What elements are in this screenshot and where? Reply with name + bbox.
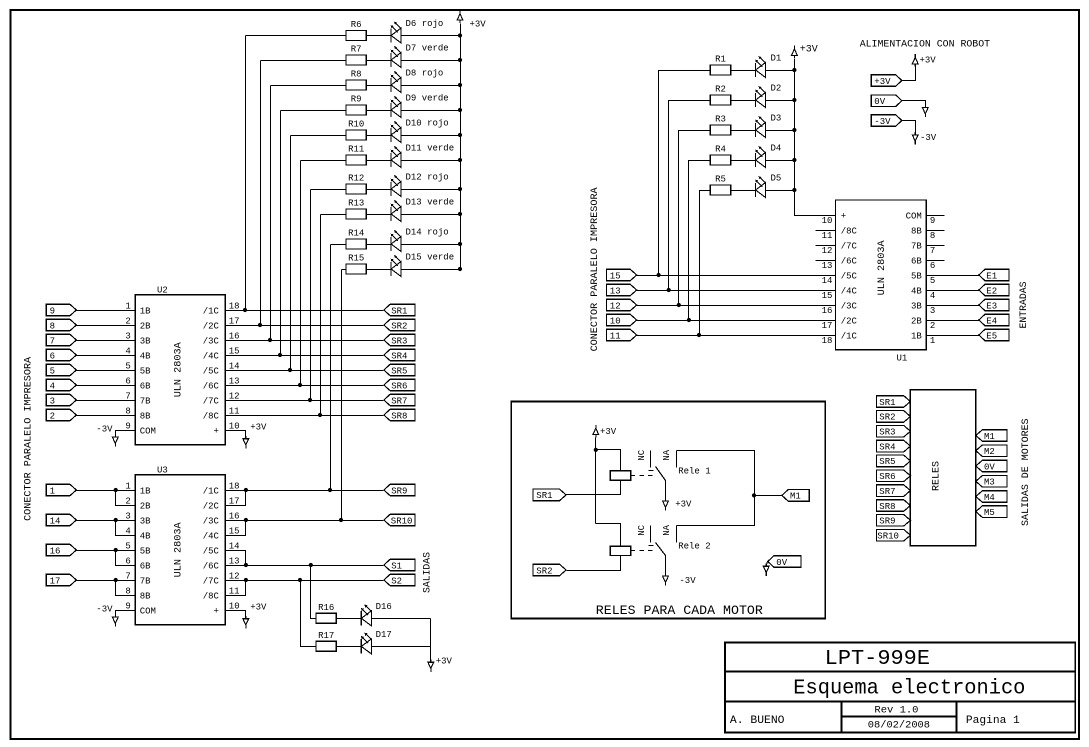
- svg-text:2B: 2B: [911, 316, 922, 326]
- svg-text:CONECTOR PARALELO IMPRESORA: CONECTOR PARALELO IMPRESORA: [24, 357, 35, 521]
- wire coil K1 to SR1: [567, 481, 621, 495]
- svg-text:-3V: -3V: [874, 117, 891, 127]
- junction U3 output pair 2: [244, 518, 248, 522]
- wire U3 pair link 1: [116, 491, 136, 506]
- resistor R10: [346, 130, 366, 140]
- LED D9: [390, 103, 392, 117]
- flag SR4 (reles block): [877, 440, 911, 452]
- relay K1 blade: [656, 467, 666, 481]
- wire D1 to rail: [766, 70, 795, 72]
- junction S2/R17: [298, 578, 302, 582]
- wire net SR2 vertical bus: [260, 61, 262, 326]
- wire K1 common to +3V: [665, 481, 667, 500]
- svg-text:08/02/2008: 08/02/2008: [868, 719, 930, 731]
- LED D8: [390, 78, 392, 92]
- svg-text:7B: 7B: [140, 576, 151, 586]
- svg-text:SR1: SR1: [391, 306, 407, 316]
- svg-text:D16: D16: [376, 602, 392, 612]
- wire U2 COM to -3V: [116, 431, 136, 437]
- junction S1/R16: [309, 563, 313, 567]
- wire row R9: [281, 110, 347, 112]
- wire R4 to D4: [731, 160, 756, 162]
- svg-text:SALIDAS DE MOTORES: SALIDAS DE MOTORES: [1021, 418, 1032, 526]
- junction conn row 1: [657, 273, 661, 277]
- wire +3V rail (LED block): [460, 24, 462, 270]
- svg-text:SR4: SR4: [879, 442, 895, 452]
- svg-text:SR10: SR10: [877, 532, 899, 542]
- wire net pin3 vertical (conn to R4): [689, 161, 711, 321]
- flag M2 (reles block): [976, 445, 1007, 457]
- wire D10 to +3V rail: [402, 135, 461, 137]
- wire flag 1 to U3: [77, 490, 136, 492]
- svg-text:ULN 2803A: ULN 2803A: [877, 240, 888, 295]
- svg-text:/1C: /1C: [841, 331, 858, 341]
- svg-text:NC: NC: [637, 449, 647, 460]
- wire coil K2 to SR2: [567, 556, 621, 571]
- junction D4/rail: [792, 158, 796, 162]
- svg-text:3: 3: [50, 396, 55, 406]
- svg-text:1B: 1B: [140, 486, 151, 496]
- svg-text:SR6: SR6: [391, 381, 407, 391]
- flag SR10: [384, 514, 415, 526]
- svg-text:D17: D17: [376, 630, 392, 640]
- junction D3/rail: [792, 128, 796, 132]
- svg-text:6: 6: [125, 556, 130, 566]
- svg-text:M5: M5: [984, 508, 995, 518]
- svg-text:12: 12: [822, 246, 833, 256]
- wire D12 to +3V rail: [402, 189, 461, 191]
- svg-text:3B: 3B: [140, 336, 151, 346]
- wire D5 to rail: [766, 190, 795, 192]
- power +3V (relay box): [593, 425, 599, 437]
- resistor R3: [710, 125, 730, 135]
- flag SR8: [384, 409, 415, 421]
- svg-text:5: 5: [125, 541, 130, 551]
- wire flag 8 to U2: [77, 325, 136, 327]
- svg-text:2B: 2B: [140, 321, 151, 331]
- wire row R14: [331, 244, 347, 246]
- LED D11: [390, 153, 392, 167]
- svg-text:E5: E5: [986, 331, 997, 341]
- wire row R13: [321, 214, 347, 216]
- wire D4 to rail: [766, 160, 795, 162]
- svg-text:15: 15: [610, 271, 621, 281]
- wire net SR1 vertical bus: [245, 36, 247, 311]
- junction D15/rail: [458, 267, 462, 271]
- wire U1 2B to E4: [927, 320, 979, 322]
- svg-text:6: 6: [930, 261, 935, 271]
- svg-text:R4: R4: [715, 145, 726, 155]
- wire M1: [755, 495, 782, 497]
- svg-text:SR6: SR6: [879, 472, 895, 482]
- connector flag 4 (U2 pin 6): [46, 379, 76, 391]
- svg-text:0V: 0V: [984, 462, 995, 472]
- svg-text:D12 rojo: D12 rojo: [406, 173, 449, 183]
- flag SR1: [384, 304, 415, 316]
- junction conn row 3: [677, 303, 681, 307]
- svg-text:R12: R12: [348, 174, 364, 184]
- power +3V (U2 pin10): [243, 436, 249, 448]
- connector flag 16 (U3): [46, 544, 76, 556]
- svg-text:R17: R17: [318, 631, 334, 641]
- junction SR7: [308, 398, 312, 402]
- junction conn row 4: [687, 318, 691, 322]
- svg-text:/5C: /5C: [841, 271, 858, 281]
- svg-text:16: 16: [50, 546, 61, 556]
- power +3V (K1 common): [663, 498, 669, 510]
- svg-text:0V: 0V: [776, 558, 787, 568]
- svg-text:Pagina 1: Pagina 1: [966, 715, 1020, 727]
- svg-text:D5: D5: [771, 174, 782, 184]
- junction D2/rail: [792, 98, 796, 102]
- wire flag 17 to U3: [77, 580, 136, 582]
- wire net pin2 vertical (conn to R3): [679, 131, 711, 306]
- svg-text:6: 6: [50, 351, 55, 361]
- svg-text:A. BUENO: A. BUENO: [730, 715, 785, 727]
- wire D11 to +3V rail: [402, 160, 461, 162]
- resistor R14: [346, 239, 366, 249]
- svg-text:8: 8: [125, 406, 130, 416]
- flag -3V (alimentacion): [871, 115, 902, 127]
- wire U2 /8C to SR8: [226, 415, 384, 417]
- svg-text:RELES: RELES: [932, 461, 943, 491]
- wire row R11: [301, 160, 347, 162]
- power -3V (U2): [112, 434, 118, 446]
- LED D3: [755, 123, 757, 137]
- junction SR4: [278, 353, 282, 357]
- svg-text:ALIMENTACION CON ROBOT: ALIMENTACION CON ROBOT: [860, 40, 990, 51]
- svg-text:5: 5: [930, 276, 935, 286]
- wire U2 /7C to SR7: [226, 400, 384, 402]
- wire R5 to D5: [731, 190, 756, 192]
- power +3V arrow (alimentacion): [912, 54, 918, 66]
- svg-text:2: 2: [50, 411, 55, 421]
- resistor R4: [710, 155, 730, 165]
- svg-text:R15: R15: [348, 254, 364, 264]
- wire U1 stub pin 13: [816, 260, 836, 262]
- connector flag 15 (U1): [607, 269, 637, 281]
- wire R17 to D17: [337, 646, 362, 648]
- wire +3V flag to arrow: [902, 67, 916, 81]
- wire D6 to +3V rail: [402, 35, 461, 37]
- wire net SR10 vertical bus: [341, 270, 343, 521]
- power +3V (right rail): [792, 46, 798, 58]
- wire net SR5 vertical bus: [290, 136, 292, 371]
- connector flag 9 (U2 pin 1): [46, 304, 76, 316]
- svg-text:M1: M1: [790, 492, 801, 502]
- svg-text:CONECTOR PARALELO IMPRESORA: CONECTOR PARALELO IMPRESORA: [590, 187, 601, 351]
- connector flag 5 (U2 pin 5): [46, 364, 76, 376]
- svg-text:2: 2: [125, 316, 130, 326]
- wire U1 stub pin 8: [927, 230, 945, 232]
- LED D15: [390, 262, 392, 276]
- svg-text:/4C: /4C: [203, 531, 220, 541]
- wire U3 output pair bracket 1: [226, 491, 246, 506]
- flag SR6 (reles block): [877, 470, 911, 482]
- svg-text:5B: 5B: [140, 546, 151, 556]
- svg-text:/8C: /8C: [841, 226, 858, 236]
- wire R14 to D14: [367, 244, 392, 246]
- svg-text:R5: R5: [715, 175, 726, 185]
- LED D4: [755, 153, 757, 167]
- svg-text:6B: 6B: [140, 381, 151, 391]
- relay K1 dashed link: [631, 475, 655, 477]
- flag SR2 (relay box): [533, 564, 566, 576]
- power -3V (U3): [112, 614, 118, 626]
- junction SR3: [268, 338, 272, 342]
- svg-text:1: 1: [125, 301, 130, 311]
- svg-text:10: 10: [822, 216, 833, 226]
- wire R12 to D12: [367, 189, 392, 191]
- wire feed to coil K1: [596, 450, 621, 471]
- svg-text:-3V: -3V: [920, 133, 937, 143]
- svg-text:4B: 4B: [140, 531, 151, 541]
- junction M1: [752, 493, 756, 497]
- wire U3 COM to -3V: [116, 611, 136, 617]
- svg-text:Rev 1.0: Rev 1.0: [874, 706, 918, 717]
- wire net pin4 vertical (conn to R5): [700, 191, 711, 336]
- relay K2 contact NC: [650, 526, 652, 543]
- flag E1: [979, 269, 1009, 281]
- flag 0V (alimentacion): [871, 95, 902, 107]
- svg-text:SR3: SR3: [879, 428, 895, 438]
- svg-text:3: 3: [125, 331, 130, 341]
- wire U1 3B to E3: [927, 305, 979, 307]
- wire D7 to +3V rail: [402, 60, 461, 62]
- wire R1 to D1: [731, 70, 756, 72]
- resistor R2: [710, 95, 730, 105]
- svg-text:/6C: /6C: [841, 256, 858, 266]
- relay K1 contact NC: [650, 451, 652, 468]
- svg-text:3: 3: [930, 306, 935, 316]
- junction D11/rail: [458, 158, 462, 162]
- svg-text:7B: 7B: [140, 396, 151, 406]
- svg-text:R8: R8: [351, 70, 362, 80]
- relay coil K2: [610, 546, 631, 555]
- wire U1 4B to E2: [927, 290, 979, 292]
- wire row R12: [311, 189, 347, 191]
- relay K2 dashed link: [631, 550, 655, 552]
- flag SR6: [384, 379, 415, 391]
- resistor R9: [346, 105, 366, 115]
- svg-text:D15 verde: D15 verde: [406, 253, 455, 263]
- junction conn row 2: [667, 288, 671, 292]
- svg-text:1: 1: [930, 336, 935, 346]
- svg-text:S2: S2: [391, 576, 402, 586]
- relay block RELES body: [910, 390, 975, 546]
- flag +3V (alimentacion): [871, 75, 902, 87]
- svg-text:U1: U1: [897, 354, 908, 364]
- svg-text:SR8: SR8: [391, 411, 407, 421]
- wire net SR7 vertical bus: [310, 190, 312, 401]
- resistor R16: [316, 613, 336, 623]
- svg-text:D3: D3: [771, 114, 782, 124]
- svg-text:16: 16: [822, 306, 833, 316]
- svg-text:R9: R9: [351, 95, 362, 105]
- svg-text:+3V: +3V: [436, 657, 453, 667]
- flag 0V (relay box): [768, 556, 801, 568]
- junction SR1: [243, 308, 247, 312]
- wire net SR4 vertical bus: [280, 111, 282, 356]
- svg-text:D14 rojo: D14 rojo: [406, 228, 449, 238]
- power -3V (K2 common): [663, 573, 669, 585]
- svg-text:SR1: SR1: [536, 491, 552, 501]
- svg-text:D6 rojo: D6 rojo: [406, 19, 444, 29]
- svg-text:SR5: SR5: [879, 457, 895, 467]
- connector flag 17 (U3): [46, 574, 76, 586]
- wire U3 pair link 2: [116, 521, 136, 536]
- junction D14/rail: [458, 242, 462, 246]
- svg-text:SR7: SR7: [879, 487, 895, 497]
- svg-text:COM: COM: [140, 427, 156, 437]
- svg-text:COM: COM: [140, 607, 156, 617]
- svg-text:+3V: +3V: [470, 20, 487, 30]
- svg-text:10: 10: [229, 601, 240, 611]
- svg-text:/7C: /7C: [203, 396, 220, 406]
- LED D1: [755, 63, 757, 77]
- relay K2 contact NA: [676, 526, 678, 543]
- svg-text:R10: R10: [348, 120, 364, 130]
- LED D10: [390, 128, 392, 142]
- LED D6: [390, 28, 392, 42]
- junction SR6: [298, 383, 302, 387]
- relay K2 blade: [656, 543, 666, 556]
- wire flag 2 to U2: [77, 415, 136, 417]
- svg-text:R1: R1: [715, 55, 726, 65]
- svg-text:/7C: /7C: [841, 241, 858, 251]
- flag SR7 (reles block): [877, 485, 911, 497]
- wire row R8: [271, 85, 347, 87]
- svg-text:4: 4: [930, 291, 935, 301]
- svg-text:/6C: /6C: [203, 561, 220, 571]
- power +3V (U3 pin10): [243, 616, 249, 628]
- wire R13 to D13: [367, 214, 392, 216]
- svg-text:D11 verde: D11 verde: [406, 144, 455, 154]
- svg-text:Rele 1: Rele 1: [678, 466, 710, 476]
- svg-text:SALIDAS: SALIDAS: [423, 552, 434, 593]
- LED D14: [390, 237, 392, 251]
- wire +3V rail to U1 pin10: [795, 59, 836, 216]
- svg-text:/4C: /4C: [841, 286, 858, 296]
- connector flag 13 (U1): [607, 284, 637, 296]
- wire D14 to +3V rail: [402, 244, 461, 246]
- wire feed to coil K2: [596, 524, 621, 547]
- svg-text:9: 9: [930, 216, 935, 226]
- wire U3 pair link 4: [116, 581, 136, 596]
- svg-text:/8C: /8C: [203, 411, 220, 421]
- svg-text:SR2: SR2: [879, 413, 895, 423]
- junction SR8: [318, 413, 322, 417]
- svg-text:D2: D2: [771, 84, 782, 94]
- wire R2 to D2: [731, 100, 756, 102]
- svg-text:7: 7: [50, 336, 55, 346]
- svg-text:NA: NA: [662, 449, 672, 460]
- flag M5 (reles block): [976, 506, 1007, 518]
- svg-text:13: 13: [822, 261, 833, 271]
- wire net SR9 vertical bus: [330, 245, 332, 491]
- resistor R11: [346, 155, 366, 165]
- wire R9 to D9: [367, 110, 392, 112]
- wire flag 10 to U1: [637, 320, 836, 322]
- junction SR5: [288, 368, 292, 372]
- svg-text:COM: COM: [906, 211, 922, 221]
- svg-text:SR2: SR2: [536, 566, 552, 576]
- svg-text:D7 verde: D7 verde: [406, 44, 449, 54]
- connector flag 2 (U2 pin 8): [46, 409, 76, 421]
- flag SR8 (reles block): [877, 500, 911, 512]
- flag SR1 (relay box): [533, 489, 566, 501]
- flag E4: [979, 314, 1009, 326]
- title block dividers: [725, 671, 1076, 673]
- junction U3 input pair 1: [114, 488, 118, 492]
- wire row R10: [291, 135, 347, 137]
- wire flag 15 to U1: [637, 275, 836, 277]
- svg-text:R2: R2: [715, 85, 726, 95]
- svg-text:SR10: SR10: [391, 516, 413, 526]
- wire U2 /6C to SR6: [226, 385, 384, 387]
- resistor R5: [710, 185, 730, 195]
- junction U3 output pair 4: [244, 578, 248, 582]
- flag E5: [979, 329, 1009, 341]
- svg-text:/2C: /2C: [203, 501, 220, 511]
- svg-text:Esquema electronico: Esquema electronico: [793, 677, 1025, 700]
- wire U1 stub pin 9: [927, 215, 945, 217]
- wire U2 /1C to SR1: [226, 310, 384, 312]
- svg-text:-3V: -3V: [96, 425, 113, 435]
- wire U3 output pair bracket 3: [226, 551, 246, 566]
- flag M1 (reles block): [976, 430, 1007, 442]
- flag SR2: [384, 319, 415, 331]
- wire U2 /2C to SR2: [226, 325, 384, 327]
- power +3V (LED block top): [457, 10, 463, 22]
- svg-text:13: 13: [610, 286, 621, 296]
- svg-text:R6: R6: [351, 20, 362, 30]
- svg-text:+3V: +3V: [250, 422, 267, 432]
- svg-text:8: 8: [125, 586, 130, 596]
- svg-text:2: 2: [125, 496, 130, 506]
- svg-text:D10 rojo: D10 rojo: [406, 119, 449, 129]
- wire R8 to D8: [367, 85, 392, 87]
- connector flag 7 (U2 pin 3): [46, 334, 76, 346]
- svg-text:U2: U2: [157, 285, 168, 295]
- wire -3V flag to arrow: [902, 121, 916, 134]
- resistor R7: [346, 55, 366, 65]
- wire R15 to D15: [367, 269, 392, 271]
- relay detail box: [511, 402, 825, 619]
- svg-text:M4: M4: [984, 493, 995, 503]
- svg-text:-3V: -3V: [96, 605, 113, 615]
- svg-text:3B: 3B: [911, 301, 922, 311]
- wire R6 to D6: [367, 35, 392, 37]
- svg-text:R16: R16: [318, 603, 334, 613]
- svg-text:6B: 6B: [911, 256, 922, 266]
- svg-text:/2C: /2C: [203, 321, 220, 331]
- junction D12/rail: [458, 187, 462, 191]
- flag S1: [384, 559, 415, 571]
- svg-text:+3V: +3V: [600, 427, 617, 437]
- wire U1 stub pin 6: [927, 260, 945, 262]
- wire D17/+3V vertical: [372, 646, 431, 648]
- wire +3V feed vertical: [595, 438, 597, 524]
- wire D8 to +3V rail: [402, 85, 461, 87]
- svg-text:M2: M2: [984, 447, 995, 457]
- wire flag 4 to U2: [77, 385, 136, 387]
- LED D12: [390, 182, 392, 196]
- svg-text:0V: 0V: [874, 97, 885, 107]
- flag SR9: [384, 484, 415, 496]
- svg-text:SR8: SR8: [879, 502, 895, 512]
- svg-text:R14: R14: [348, 229, 364, 239]
